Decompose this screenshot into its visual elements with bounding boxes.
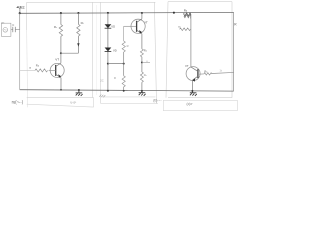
ground panel 3 <box>190 91 197 96</box>
junction dot collector VT2 <box>141 12 143 14</box>
wire Rb to base <box>49 69 56 71</box>
svg-text:C: C <box>12 23 14 27</box>
svg-text:2C: 2C <box>100 79 103 83</box>
wire emitter VT2 <box>141 34 143 49</box>
transistor VT2 <box>131 19 145 33</box>
wire base lead-in <box>20 69 35 71</box>
wire base branch top <box>123 26 125 41</box>
wire emitter down <box>60 78 62 90</box>
svg-text:VD: VD <box>113 48 117 52</box>
wire source to cap <box>11 29 13 31</box>
wire R1 to node <box>123 52 125 64</box>
resistor ui series <box>180 28 191 31</box>
resistor Re2 <box>140 72 143 82</box>
transistor VT1 <box>50 63 64 77</box>
panel 3 caption box <box>163 100 237 110</box>
ground panel 1 <box>78 89 80 91</box>
svg-text:R: R <box>234 23 237 27</box>
junction dot R1 top <box>60 12 62 14</box>
junction dot emitter node <box>141 61 143 63</box>
wire Re2 to rail <box>141 82 143 91</box>
ground rail <box>20 90 234 91</box>
wire rail to Rc <box>60 13 62 24</box>
svg-text:Rb: Rb <box>184 8 188 12</box>
resistor Rb1 <box>184 13 191 19</box>
wire R2 to rail <box>123 87 125 91</box>
wire right vertical <box>233 12 235 91</box>
capacitor C1 <box>13 27 16 32</box>
panel 1 caption box <box>27 98 94 108</box>
svg-text:us: us <box>2 20 5 24</box>
diode VD2 <box>105 48 112 52</box>
svg-text:u·o¹: u·o¹ <box>71 100 77 104</box>
wire rail to RL <box>77 13 79 24</box>
wire emitter VT3 <box>191 80 193 91</box>
VCC rail <box>20 11 234 14</box>
svg-text:(b)·~·: (b)·~· <box>153 98 161 102</box>
diode VD1 <box>105 24 112 28</box>
junction dot RL top <box>77 12 79 14</box>
svg-text:VT: VT <box>185 64 189 68</box>
faint separator line <box>95 5 97 95</box>
resistor R2 <box>122 76 125 87</box>
resistor Re1 <box>140 49 143 57</box>
junction dot at ground rail <box>107 90 109 92</box>
svg-text:ui: ui <box>29 65 32 69</box>
svg-text:VT: VT <box>55 57 59 61</box>
wire diode branch <box>107 13 109 91</box>
junction dot divider right <box>123 63 125 65</box>
junction dot collector node <box>60 52 62 54</box>
wire Rc to collector node <box>60 36 62 53</box>
junction dot divider left <box>107 63 109 65</box>
wire collector vertical <box>60 53 62 63</box>
svg-text:R: R <box>114 76 116 80</box>
ground panel 2 <box>139 91 146 96</box>
wire VCC stem <box>19 9 21 13</box>
svg-text:1b: 1b <box>220 71 223 73</box>
svg-text:VD: VD <box>111 24 115 28</box>
svg-text:Rb: Rb <box>36 63 40 67</box>
panel 2 bottom border <box>101 96 156 98</box>
junction dot diode branch <box>107 12 109 14</box>
svg-text:(c)x·: (c)x· <box>187 102 194 106</box>
wire Rb3 to right vertical <box>212 72 234 73</box>
wire left vertical lower <box>19 30 21 90</box>
junction dot emitter rail <box>141 90 143 92</box>
svg-text:Re: Re <box>144 73 147 77</box>
source symbol <box>3 28 8 33</box>
wire divider horizontal <box>108 63 124 65</box>
transistor VT3 <box>186 67 200 81</box>
svg-text:ru(~-·): ru(~-·) <box>12 99 24 104</box>
wire node to R2 <box>123 64 125 76</box>
panel 1 bottom border <box>27 97 94 99</box>
current arrow <box>77 43 79 46</box>
svg-text:R: R <box>127 44 129 48</box>
svg-text:RL: RL <box>81 21 85 25</box>
wire base VT2 <box>124 25 137 27</box>
source us box <box>1 23 11 36</box>
panel 2 caption box <box>101 102 159 104</box>
resistor RL <box>77 24 80 36</box>
svg-text:Re: Re <box>144 49 148 53</box>
svg-text:Rc: Rc <box>54 25 57 29</box>
resistor R1 <box>122 41 125 52</box>
wire base VT3 right <box>198 73 204 75</box>
resistor Rb <box>35 69 48 72</box>
wire node out <box>142 61 150 63</box>
wire collector VT2 <box>141 13 143 19</box>
junction dot panel 3 rail <box>173 12 175 14</box>
wire collector node to RL <box>61 52 79 54</box>
panel 1 border <box>27 2 157 104</box>
ground hatch small <box>99 95 105 98</box>
wire cap to node <box>15 29 19 32</box>
wire Rb1 down to VT3 <box>190 19 192 67</box>
svg-text:+UCC: +UCC <box>16 5 25 10</box>
wire left vertical upper <box>19 13 21 30</box>
wire Re1 to node <box>141 57 143 72</box>
panel 3 border <box>166 2 232 98</box>
wire RL down <box>77 36 79 53</box>
resistor Rb3 <box>204 73 212 75</box>
resistor Rc <box>59 25 62 37</box>
